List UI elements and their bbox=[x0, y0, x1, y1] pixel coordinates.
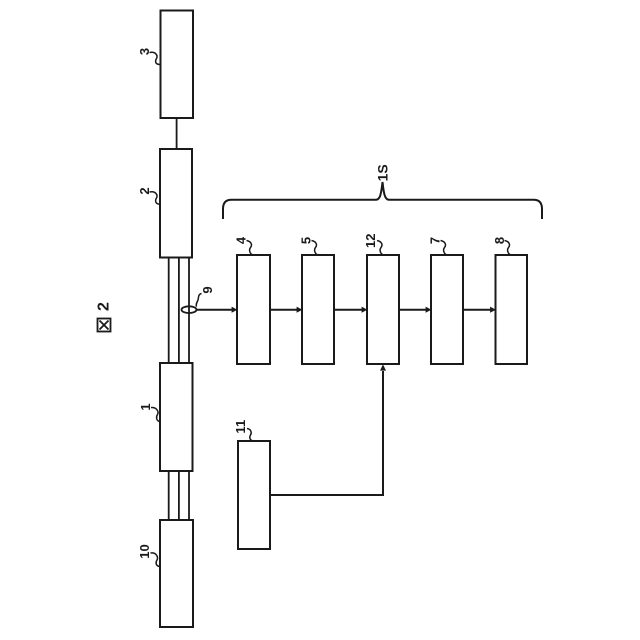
arrowhead into box 7 bbox=[426, 307, 432, 313]
box 4 bbox=[237, 255, 270, 364]
wire bus 2-1 left bbox=[168, 257, 170, 363]
svg-text:9: 9 bbox=[200, 286, 215, 293]
label 図2 kanji drawn bbox=[98, 319, 111, 332]
svg-text:8: 8 bbox=[492, 237, 507, 244]
leader for label 7 bbox=[441, 241, 448, 256]
box 2 bbox=[160, 149, 192, 258]
leader for label 12 bbox=[377, 241, 384, 256]
box 3 bbox=[161, 11, 194, 119]
wire bus 2-1 right bbox=[188, 257, 190, 363]
box 1 bbox=[160, 363, 193, 471]
svg-text:12: 12 bbox=[363, 234, 378, 248]
leader for label 9 bbox=[196, 294, 201, 307]
wire bus 1-10 middle bbox=[178, 471, 180, 520]
svg-text:1: 1 bbox=[138, 403, 153, 410]
wire 11 to 12 horizontal bbox=[270, 371, 383, 495]
svg-text:3: 3 bbox=[137, 48, 152, 55]
wire 12-7 bbox=[399, 309, 426, 311]
svg-text:5: 5 bbox=[299, 237, 314, 244]
svg-text:7: 7 bbox=[428, 237, 443, 244]
box 8 bbox=[496, 255, 528, 364]
box 5 bbox=[302, 255, 334, 364]
wire 5-12 bbox=[334, 309, 362, 311]
arrowhead into box 12 bottom bbox=[380, 364, 386, 370]
arrowhead into box 5 bbox=[297, 307, 303, 313]
wire bus 1-10 left bbox=[168, 471, 170, 520]
box 11 bbox=[238, 441, 270, 549]
arrowhead into box 4 bbox=[232, 307, 238, 313]
box 12 bbox=[367, 255, 399, 364]
wire bus 2-1 middle bbox=[178, 257, 180, 363]
svg-text:10: 10 bbox=[137, 544, 152, 558]
svg-text:2: 2 bbox=[96, 302, 113, 311]
brace 1S bbox=[223, 182, 542, 219]
wire bus 1-10 right bbox=[188, 471, 190, 520]
leader for label 10 bbox=[151, 553, 161, 567]
box 7 bbox=[431, 255, 463, 364]
arrowhead into box 8 bbox=[490, 307, 496, 313]
leader for label 5 bbox=[312, 241, 319, 256]
wire 9 to box4 bbox=[197, 309, 233, 311]
leader for label 11 bbox=[247, 429, 253, 442]
wire 3-2 bbox=[176, 118, 178, 149]
svg-text:11: 11 bbox=[233, 420, 248, 434]
svg-text:4: 4 bbox=[234, 236, 249, 244]
wire 7-8 bbox=[463, 309, 491, 311]
node 9 ellipse bbox=[182, 306, 197, 313]
wire 4-5 bbox=[270, 309, 297, 311]
svg-text:2: 2 bbox=[137, 187, 152, 194]
leader for label 4 bbox=[247, 241, 254, 256]
leader for label 8 bbox=[505, 241, 512, 256]
leader for label 3 bbox=[150, 52, 161, 64]
leader for label 1 bbox=[151, 407, 160, 421]
box 10 bbox=[160, 520, 193, 627]
leader for label 2 bbox=[150, 192, 161, 205]
svg-text:1S: 1S bbox=[375, 164, 391, 181]
arrowhead into box 12 bbox=[362, 307, 368, 313]
